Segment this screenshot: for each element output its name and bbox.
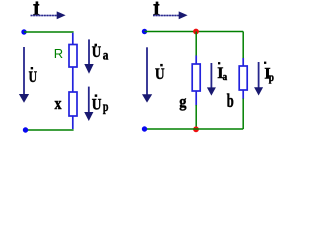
conductance g (box): [192, 64, 200, 91]
svg-text:U: U: [92, 44, 102, 61]
label Ia: [217, 62, 227, 83]
lead g bottom (blue): [195, 91, 197, 106]
label U (right circuit): [155, 64, 165, 83]
svg-text:g: g: [179, 92, 187, 111]
svg-text:U: U: [29, 69, 38, 86]
susceptance b (box): [239, 66, 247, 90]
voltage arrow Ua (down, beside R): [84, 39, 93, 73]
reactance x (box): [69, 92, 77, 116]
wire right side upper (green, into b): [242, 32, 244, 59]
lead b top (blue): [242, 58, 244, 67]
svg-text:x: x: [55, 94, 62, 113]
wire top (right circuit): [145, 31, 244, 33]
wire right side lower (green): [242, 99, 244, 130]
label Up: [92, 94, 109, 115]
current arrow I (left circuit, pointing right): [31, 11, 66, 19]
wire g branch upper (green): [195, 32, 197, 57]
node bottom-left (left circuit): [23, 127, 28, 132]
svg-text:R: R: [54, 46, 63, 61]
svg-text:p: p: [269, 70, 274, 84]
current arrow Ia (down): [207, 63, 216, 96]
current arrow I (right circuit, pointing right): [153, 11, 188, 19]
lead b bottom (blue): [242, 90, 244, 99]
voltage arrow Up (down, beside x): [84, 87, 93, 121]
svg-text:I: I: [33, 2, 39, 19]
wire g branch lower (green): [195, 105, 197, 129]
wire lead below x: [72, 116, 74, 129]
label I (current, right circuit): [153, 2, 159, 20]
wire bottom (right circuit): [145, 128, 244, 130]
wire between R and x: [72, 67, 74, 92]
node top-left (right circuit): [142, 29, 147, 34]
lead g top (blue): [195, 56, 197, 65]
svg-text:I: I: [153, 2, 159, 19]
node top-left (left circuit): [21, 29, 26, 34]
svg-text:p: p: [103, 100, 109, 115]
junction red dot top: [193, 29, 199, 35]
wire lead into R: [72, 33, 74, 45]
svg-text:a: a: [103, 48, 109, 63]
voltage arrow U (right circuit, down): [142, 47, 152, 102]
svg-text:U: U: [92, 97, 102, 114]
junction red dot bottom: [193, 126, 199, 132]
current arrow Ip (down): [254, 62, 263, 96]
svg-text:a: a: [223, 71, 228, 83]
node bottom-left (right circuit): [142, 126, 147, 131]
label Ip: [264, 62, 274, 84]
voltage arrow U (left circuit, down): [19, 47, 29, 103]
wire top (left circuit): [24, 31, 74, 33]
svg-text:U: U: [155, 66, 165, 83]
wire bottom (left circuit): [26, 129, 74, 131]
label Ua: [92, 44, 109, 64]
resistor R: [69, 45, 77, 68]
svg-text:b: b: [227, 92, 234, 112]
label I (current, left circuit): [33, 1, 39, 19]
label U (left circuit): [29, 67, 38, 86]
